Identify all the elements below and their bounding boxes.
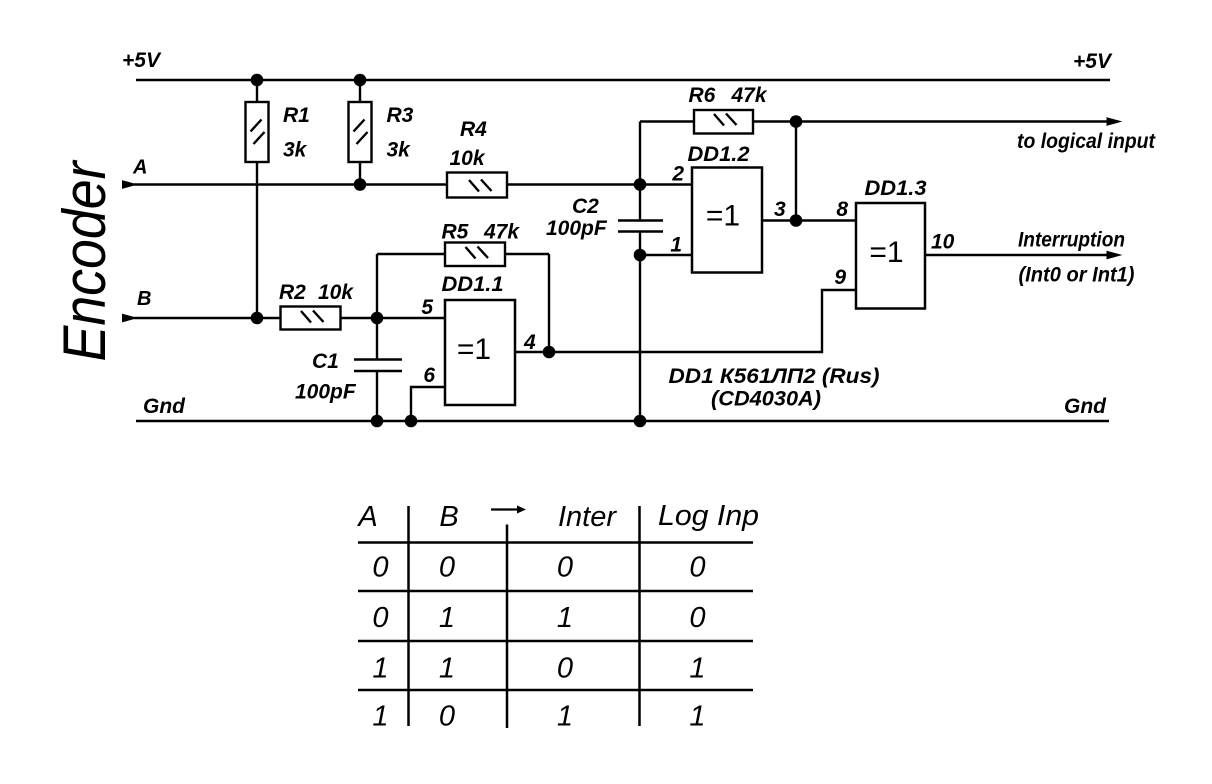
svg-text:0: 0 xyxy=(557,653,573,685)
svg-text:8: 8 xyxy=(836,198,848,221)
svg-text:+5V: +5V xyxy=(1073,50,1113,73)
junction dot A line at C2 xyxy=(634,178,647,191)
svg-text:(Int0 or Int1): (Int0 or Int1) xyxy=(1019,264,1135,287)
junction dot +5V R1 xyxy=(251,74,264,87)
svg-text:DD1.3: DD1.3 xyxy=(865,177,927,200)
svg-text:to logical input: to logical input xyxy=(1017,130,1156,153)
svg-text:C1: C1 xyxy=(312,350,339,373)
svg-text:C2: C2 xyxy=(572,195,599,218)
svg-text:0: 0 xyxy=(439,552,455,584)
junction dot pin 3 node xyxy=(790,214,803,227)
svg-text:4: 4 xyxy=(523,331,536,354)
svg-text:Interruption: Interruption xyxy=(1018,229,1125,252)
svg-text:R6: R6 xyxy=(689,84,716,107)
svg-text:Inter: Inter xyxy=(558,501,617,533)
wire DD1.3 output pin 10 xyxy=(925,254,1107,256)
ground rail Gnd xyxy=(136,420,1109,422)
resistor R2 xyxy=(281,307,341,330)
junction dot R6 output node xyxy=(790,115,803,128)
wire pin 3 to pin 8 xyxy=(762,219,856,221)
svg-text:2: 2 xyxy=(671,163,684,186)
input arrow B xyxy=(123,314,137,321)
junction dot C2 ground xyxy=(634,415,647,428)
table row 4 xyxy=(372,701,705,733)
svg-text:3k: 3k xyxy=(387,139,412,162)
svg-text:1: 1 xyxy=(372,653,388,685)
svg-text:1: 1 xyxy=(557,701,573,733)
svg-text:DD1.1: DD1.1 xyxy=(442,273,504,296)
svg-text:B: B xyxy=(439,501,458,533)
junction dot C1 ground xyxy=(371,415,384,428)
svg-text:1: 1 xyxy=(439,602,455,634)
svg-text:R3: R3 xyxy=(387,104,414,127)
table row 1 xyxy=(372,552,705,584)
resistor R5 xyxy=(377,243,549,353)
svg-text:0: 0 xyxy=(557,552,573,584)
svg-text:B: B xyxy=(137,288,151,310)
wire DD1.1 output pin 4 to DD1.3 pin 9 xyxy=(515,290,856,352)
svg-text:A: A xyxy=(356,501,377,533)
svg-text:0: 0 xyxy=(689,552,705,584)
resistor R1 xyxy=(246,80,269,318)
svg-text:0: 0 xyxy=(439,701,455,733)
truth table header arrow xyxy=(491,508,517,510)
junction dot pin 6 ground xyxy=(405,415,418,428)
svg-text:=1: =1 xyxy=(457,333,491,366)
junction dot pin 4 node xyxy=(543,346,556,359)
svg-text:0: 0 xyxy=(689,602,705,634)
svg-text:6: 6 xyxy=(423,364,435,387)
svg-text:10k: 10k xyxy=(318,281,354,304)
truth table header underline xyxy=(358,541,753,544)
svg-text:Gnd: Gnd xyxy=(143,395,186,418)
junction dot +5V R3 xyxy=(354,74,367,87)
svg-text:1: 1 xyxy=(439,653,455,685)
svg-text:Gnd: Gnd xyxy=(1064,395,1107,418)
wire B line left of R2 xyxy=(134,317,281,319)
capacitor C2 xyxy=(618,122,663,422)
truth table row line 2 xyxy=(358,640,753,643)
svg-text:1: 1 xyxy=(372,701,388,733)
output arrow to logical input xyxy=(1107,118,1121,125)
truth table vertical line B|Inter xyxy=(506,525,509,729)
svg-text:R5: R5 xyxy=(442,221,469,244)
svg-text:+5V: +5V xyxy=(122,49,162,72)
svg-text:A: A xyxy=(132,157,147,179)
svg-text:47k: 47k xyxy=(483,221,520,244)
+5V rail xyxy=(136,79,1110,81)
wire R6 node to logical output xyxy=(796,120,1107,122)
svg-text:10: 10 xyxy=(931,231,955,254)
XOR gate DD1.1 xyxy=(445,300,515,405)
table row 2 xyxy=(372,602,705,634)
svg-text:DD1.2: DD1.2 xyxy=(688,143,750,166)
svg-text:9: 9 xyxy=(834,266,846,289)
svg-text:(CD4030A): (CD4030A) xyxy=(711,388,821,411)
svg-text:10k: 10k xyxy=(450,147,486,170)
svg-text:1: 1 xyxy=(557,602,573,634)
svg-text:1: 1 xyxy=(689,653,705,685)
svg-text:=1: =1 xyxy=(869,236,903,269)
output arrow Interruption xyxy=(1107,251,1121,258)
svg-text:0: 0 xyxy=(372,552,388,584)
svg-text:3: 3 xyxy=(774,198,786,221)
wire R6 node down to pin 3 node xyxy=(795,122,797,221)
resistor R4 xyxy=(447,173,507,198)
junction dot pin 1 node xyxy=(634,249,647,262)
truth table row line 1 xyxy=(358,590,753,593)
resistor R6 xyxy=(640,110,796,134)
svg-text:Encoder: Encoder xyxy=(51,160,118,362)
junction dot B node at C1 xyxy=(371,312,384,325)
svg-text:47k: 47k xyxy=(731,84,768,107)
wire B line right of R2 to pin 5 xyxy=(341,317,445,319)
svg-text:1: 1 xyxy=(689,701,705,733)
svg-text:100pF: 100pF xyxy=(295,381,357,404)
wire pin 1 to ground line xyxy=(640,254,692,256)
XOR gate DD1.3 xyxy=(856,203,925,309)
truth table row line 3 xyxy=(358,689,753,692)
wire A line right of R4 to pin 2 xyxy=(507,183,692,185)
svg-text:R1: R1 xyxy=(283,104,310,127)
truth table vertical line A|B xyxy=(407,506,410,726)
XOR gate DD1.2 xyxy=(692,168,762,273)
svg-text:0: 0 xyxy=(372,602,388,634)
svg-text:R4: R4 xyxy=(460,118,487,141)
svg-text:3k: 3k xyxy=(283,139,308,162)
svg-text:Log Inp: Log Inp xyxy=(658,500,759,532)
table row 3 xyxy=(372,653,705,685)
wire A line left of R4 xyxy=(134,183,447,185)
resistor R3 xyxy=(349,80,372,185)
svg-text:1: 1 xyxy=(670,234,682,257)
capacitor C1 xyxy=(354,318,402,421)
wire pin 6 to ground xyxy=(411,387,445,421)
svg-text:R2: R2 xyxy=(279,281,306,304)
svg-text:100pF: 100pF xyxy=(546,217,608,240)
junction dot R1 on B line xyxy=(251,312,264,325)
svg-text:=1: =1 xyxy=(706,200,740,233)
truth table vertical line Inter|LogInp xyxy=(638,506,641,726)
svg-text:DD1 К561ЛП2 (Rus): DD1 К561ЛП2 (Rus) xyxy=(669,365,880,388)
svg-text:5: 5 xyxy=(421,296,433,319)
input arrow A xyxy=(123,181,137,188)
junction dot R3 on A line xyxy=(354,178,367,191)
